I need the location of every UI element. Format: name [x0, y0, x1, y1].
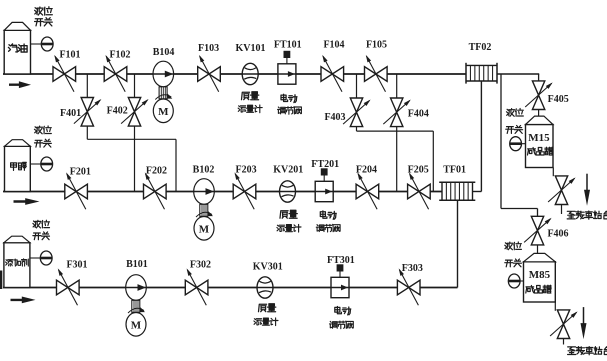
level switch instrument (M85 tank)	[505, 242, 524, 288]
electric control valve FT101	[274, 40, 302, 115]
svg-text:FT301: FT301	[327, 255, 355, 266]
product tank M15	[526, 116, 554, 167]
pipe M15 outlet	[553, 168, 561, 215]
static mixer TF02	[466, 42, 497, 84]
level switch instrument (M15 tank)	[506, 109, 526, 151]
svg-text:F402: F402	[107, 106, 128, 117]
mass flow meter KV301	[253, 262, 283, 326]
electric control valve FT201	[311, 159, 340, 232]
valve F303	[397, 263, 422, 305]
pipe TF02 outlet to F405 corner	[497, 74, 539, 81]
svg-text:F303: F303	[402, 263, 423, 274]
pipe F405 to M15 tank	[538, 109, 540, 116]
svg-text:B102: B102	[193, 165, 215, 176]
pipe F401 branch stub	[86, 74, 88, 98]
tank methanol (jiachun)	[5, 140, 31, 192]
svg-text:F201: F201	[70, 167, 91, 178]
svg-text:KV301: KV301	[253, 262, 283, 273]
valve F301	[57, 260, 88, 306]
pipe F403 branch stub	[356, 74, 358, 98]
svg-text:F105: F105	[366, 40, 387, 51]
svg-text:F104: F104	[323, 40, 344, 51]
valve F105	[365, 40, 388, 92]
valve F406	[524, 216, 568, 245]
pipe F402 branch stub	[134, 74, 136, 98]
valve F203	[233, 165, 256, 210]
valve F104	[321, 40, 345, 92]
valve F302	[185, 260, 211, 306]
level switch instrument (gasoline tank)	[31, 7, 54, 51]
valve F101	[53, 50, 81, 92]
tank additive (tianjiaji)	[4, 236, 30, 287]
svg-text:B104: B104	[153, 47, 175, 58]
svg-text:F203: F203	[236, 165, 257, 176]
mass flow meter KV101	[236, 43, 266, 113]
svg-text:KV101: KV101	[236, 43, 266, 54]
loading arrow (M15)	[584, 174, 590, 206]
pipe M85 outlet	[555, 302, 563, 345]
valve F405	[525, 81, 569, 110]
valve to loading station (M85 outlet)	[550, 310, 578, 339]
svg-text:F405: F405	[548, 94, 569, 105]
svg-text:M: M	[158, 106, 169, 118]
label to truck loading station (top)	[567, 211, 607, 219]
svg-text:F302: F302	[190, 260, 211, 271]
svg-text:FT201: FT201	[311, 159, 339, 170]
pump B101	[126, 259, 148, 336]
svg-text:TF02: TF02	[469, 42, 492, 53]
flow arrow methanol	[14, 198, 40, 205]
svg-text:F404: F404	[408, 109, 429, 120]
level switch instrument (methanol tank)	[30, 126, 52, 171]
svg-text:KV201: KV201	[273, 165, 303, 176]
svg-text:F401: F401	[60, 108, 81, 119]
svg-text:F101: F101	[59, 50, 80, 61]
pipe F406 to M85 tank	[537, 245, 539, 254]
flow arrow gasoline	[9, 81, 31, 88]
pipe additive main line	[3, 287, 458, 289]
svg-text:F102: F102	[109, 50, 130, 61]
svg-text:F204: F204	[356, 165, 377, 176]
pipe F402 down to methanol line	[134, 126, 136, 191]
valve F204	[356, 165, 379, 210]
valve F102	[104, 50, 130, 92]
svg-text:F205: F205	[408, 165, 429, 176]
scan artifact left edge	[0, 271, 2, 290]
loading arrow (M85)	[581, 307, 587, 339]
valve F404	[383, 98, 429, 127]
pipe F404 branch stub	[396, 74, 398, 98]
label to truck loading station (bottom)	[568, 347, 607, 355]
svg-text:M85: M85	[529, 269, 551, 281]
tank gasoline (qiyou)	[4, 22, 30, 74]
pipe F403 to methanol line jog	[357, 127, 434, 192]
valve F403	[324, 98, 370, 127]
svg-text:B101: B101	[126, 259, 148, 270]
pipe M85 feed branch (down from TF02 outlet, corner to F406)	[501, 74, 538, 217]
svg-text:F403: F403	[324, 112, 345, 123]
pump B102	[193, 165, 215, 241]
static mixer TF01	[439, 165, 475, 201]
valve F202	[144, 166, 167, 210]
svg-text:FT101: FT101	[274, 40, 302, 51]
svg-text:F301: F301	[66, 260, 87, 271]
valve F205	[408, 165, 431, 210]
valve F402	[107, 98, 149, 127]
product tank M85	[524, 253, 556, 302]
svg-text:M: M	[199, 224, 210, 236]
mass flow meter KV201	[273, 165, 303, 233]
valve F103	[198, 43, 221, 92]
svg-text:F202: F202	[146, 166, 167, 177]
level switch instrument (additive tank)	[30, 220, 52, 265]
valve to loading station (M15 outlet)	[548, 176, 576, 205]
pipe gasoline main line	[3, 73, 466, 75]
svg-text:M15: M15	[528, 132, 550, 144]
svg-text:F103: F103	[198, 43, 219, 54]
valve F401	[60, 98, 101, 127]
pipe F404 down to methanol line	[396, 127, 398, 192]
electric control valve FT301	[327, 255, 355, 329]
svg-text:F406: F406	[547, 229, 568, 240]
svg-text:TF01: TF01	[443, 165, 466, 176]
pipe methanol main line	[3, 191, 442, 193]
svg-text:M: M	[131, 320, 142, 332]
pipe TF01 outlet riser to TF02 bottom	[473, 81, 482, 192]
flow arrow additive	[11, 297, 36, 304]
valve F201	[65, 167, 91, 210]
pipe additive riser to TF01 bottom	[457, 200, 459, 288]
pump B104	[153, 47, 175, 123]
pipe F401 to methanol line jog	[87, 126, 176, 191]
